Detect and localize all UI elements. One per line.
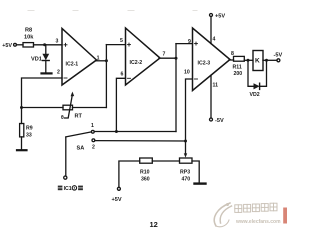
wire output IC2-2 [159,57,176,59]
thermistor RT [61,92,83,122]
-5V terminal bottom (pin 11) [210,118,224,124]
potentiometer RP3 470 [180,158,193,183]
svg-text:+5V: +5V [112,197,122,203]
svg-text:3: 3 [56,39,59,45]
svg-text:R10: R10 [140,170,150,176]
wire output IC2-3 [229,59,234,61]
node relay left junction [247,59,250,62]
wire +5V to R8 [16,44,23,46]
svg-text:12: 12 [150,220,158,228]
watermark (decorative) [214,203,231,227]
svg-text:10k: 10k [24,35,34,41]
wire net vertical out2 [175,44,177,132]
node pin2/RT/R9 junction [20,106,23,109]
svg-text:2: 2 [57,70,60,76]
+5V terminal top (pin 4) [210,14,226,20]
node output1 junction [105,59,108,62]
svg-text:RP3: RP3 [180,170,190,176]
svg-text:R8: R8 [25,28,32,34]
svg-text:IC2-1: IC2-1 [66,62,79,68]
node pin6/contact1 junction [115,130,118,133]
resistor R9 33 [20,124,33,139]
ground under VD1 [42,72,52,74]
svg-text:R11: R11 [233,65,242,71]
wire +5V up to R10 [119,161,140,187]
scan remnants top (decorative) [28,10,197,12]
resistor R8 10k [23,28,34,48]
wire pin4 [210,17,212,44]
wire pin10 [186,79,193,141]
node output2 junction [175,57,178,60]
svg-text:10: 10 [184,70,190,76]
wire R10 to RP3 [152,160,179,162]
svg-text:5: 5 [120,38,123,44]
wire contact1 net [94,131,176,133]
node R8/VD1/pin3 junction [43,43,46,46]
switch SA [66,123,95,176]
wire contact2 net [95,140,186,142]
wire feedback vertical [105,45,107,108]
svg-text:R9: R9 [26,126,33,132]
svg-text:200: 200 [234,71,243,77]
diode VD2 loop [248,60,267,98]
wire RT to feedback node [73,107,107,109]
svg-text:-5V: -5V [215,118,224,124]
svg-text:+5V: +5V [2,43,12,49]
svg-text:-5V: -5V [274,53,283,59]
+5V terminal left [2,43,16,49]
svg-text:470: 470 [182,177,191,183]
op-amp IC2-1 [56,29,100,86]
wire pin2 to left [22,78,63,124]
relay K [253,51,263,71]
svg-text:VD1: VD1 [31,57,42,63]
svg-text:6: 6 [121,72,124,78]
wire node to RT [22,107,64,109]
-5V terminal right [274,53,283,62]
svg-text:IC2-3: IC2-3 [198,61,211,67]
op-amp IC2-3 [184,28,234,91]
wire K to -5V [263,59,277,61]
wire R9 to ground [21,137,23,149]
svg-text:VD2: VD2 [250,92,260,98]
node terminal to IC1 pin 8 [58,176,83,192]
svg-text:11: 11 [213,83,219,89]
wire pin6 down [116,78,125,131]
node relay right junction [265,59,268,62]
wire output IC2-1 [96,60,107,62]
svg-text:360: 360 [141,177,150,183]
ground under RP3 [195,182,206,184]
wire wiper RP3 [185,141,187,155]
svg-text:www.elecfans.com: www.elecfans.com [235,219,281,225]
op-amp IC2-2 [120,28,166,85]
svg-text:IC1: IC1 [64,186,72,192]
wire R11 to K [244,59,253,61]
diode VD1 [31,45,49,72]
svg-text:SA: SA [77,146,85,152]
svg-text:1: 1 [91,123,94,129]
resistor R10 360 [140,158,153,183]
svg-text:θ: θ [61,115,64,121]
wire RP3 to ground [192,161,199,182]
wire pin9 [176,43,193,45]
svg-text:2: 2 [92,145,95,151]
svg-text:RT: RT [75,114,83,120]
svg-text:IC2-2: IC2-2 [130,60,143,66]
wire R8 to pin3 [34,44,63,46]
svg-text:+5V: +5V [215,14,225,20]
+5V terminal bottom [112,187,122,203]
svg-text:9: 9 [188,39,191,45]
wire pin11 [210,75,212,118]
svg-text:K: K [255,58,260,65]
ground under R9 [17,149,27,151]
svg-text:7: 7 [163,52,166,58]
node pin10/contact2 junction [184,140,187,143]
wire to pin5 [106,44,125,46]
resistor R11 200 [233,56,245,77]
svg-text:33: 33 [26,133,32,139]
svg-text:4: 4 [213,37,216,43]
